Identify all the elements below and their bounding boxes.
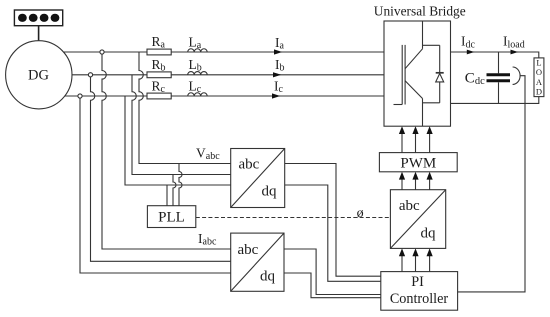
abc/dq converter U2 (current) — [231, 233, 284, 291]
resistor Rb — [147, 57, 171, 78]
current arrow Idc — [461, 34, 476, 55]
wire: phase C tap 2 (to Vabc converter) — [125, 96, 231, 185]
arrows: PI controller to dq/abc converter — [399, 248, 433, 271]
arrows: PWM to bridge gates — [399, 126, 433, 152]
svg-text:Lc: Lc — [189, 78, 202, 95]
svg-text:ø: ø — [357, 206, 364, 221]
wire phase B — [72, 74, 384, 76]
svg-text:Rb: Rb — [152, 57, 166, 74]
abc/dq converter U1 (voltage) — [231, 149, 285, 208]
PI controller block — [381, 272, 458, 311]
wire: PLL tap b — [173, 175, 176, 206]
diode D1 — [423, 45, 444, 103]
dq/abc converter U3 — [390, 190, 445, 249]
svg-text:Ib: Ib — [275, 57, 285, 74]
svg-text:Universal Bridge: Universal Bridge — [374, 4, 466, 19]
svg-text:Iload: Iload — [503, 34, 525, 51]
generator DG — [6, 41, 72, 109]
node C — [78, 94, 82, 98]
svg-text:Idc: Idc — [461, 34, 476, 51]
svg-text:dq: dq — [421, 225, 437, 241]
wire: U1 output d (to PI controller) — [285, 164, 381, 277]
terminal block — [14, 10, 62, 26]
universal bridge block — [384, 21, 451, 126]
svg-text:Rc: Rc — [152, 78, 166, 95]
wire: phase A tap 1 (to Iabc converter) — [102, 54, 231, 249]
wire: dashed phase angle line — [196, 217, 391, 219]
svg-text:Ia: Ia — [275, 35, 285, 52]
wire: U2 output d (to PI controller) — [284, 249, 381, 295]
wire: terminal block stem — [38, 26, 40, 41]
current arrow Ib — [273, 57, 285, 77]
wire: U1 output q (to PI controller) — [285, 185, 381, 281]
wire phase C — [65, 95, 384, 97]
current arrow Ia — [274, 35, 285, 55]
inductor Lc — [188, 78, 208, 96]
svg-text:abc: abc — [239, 156, 260, 172]
wire: PLL tap c — [166, 185, 168, 206]
capacitor Cdc — [465, 52, 510, 103]
svg-text:dq: dq — [262, 183, 278, 199]
inductor Lb — [188, 57, 208, 75]
svg-text:PI: PI — [411, 274, 424, 290]
svg-text:PWM: PWM — [400, 155, 436, 171]
svg-text:PLL: PLL — [158, 210, 185, 226]
svg-text:Vabc: Vabc — [196, 145, 220, 162]
svg-text:abc: abc — [238, 242, 259, 258]
transistor Q1 (IGBT) — [402, 21, 422, 126]
wire: Vdc feedback to PI controller (with hop arc) — [458, 67, 525, 292]
svg-text:L: L — [536, 58, 541, 68]
wire: phase C tap 1 (to Iabc converter) — [80, 98, 231, 273]
svg-text:abc: abc — [399, 198, 420, 214]
svg-text:Lb: Lb — [189, 57, 202, 74]
wire: DC bus positive rail — [451, 52, 539, 58]
wire: phase A tap 2 (to Vabc converter) — [139, 52, 231, 164]
svg-text:D: D — [536, 86, 542, 96]
arrows: U3 to PWM — [399, 172, 433, 190]
svg-text:Controller: Controller — [390, 291, 449, 307]
svg-text:DG: DG — [28, 68, 49, 84]
PLL block — [147, 206, 195, 228]
wire: PLL tap a — [179, 164, 182, 206]
svg-text:A: A — [536, 77, 543, 87]
resistor Ra — [147, 34, 171, 55]
svg-text:Cdc: Cdc — [465, 70, 485, 87]
wire: phase B tap 2 (to Vabc converter) — [132, 75, 231, 175]
current arrow Ic — [272, 79, 284, 99]
PWM block — [379, 153, 457, 172]
load block — [534, 58, 544, 97]
svg-text:Ic: Ic — [274, 79, 284, 96]
wire: U2 output q (to PI controller) — [284, 273, 381, 298]
svg-text:Iabc: Iabc — [198, 231, 217, 248]
svg-text:La: La — [189, 35, 202, 52]
svg-text:dq: dq — [260, 269, 276, 285]
wire phase A — [64, 51, 384, 53]
node A — [100, 50, 104, 54]
wire: DC bus negative rail — [451, 97, 539, 104]
inductor La — [188, 35, 208, 53]
svg-text:Ra: Ra — [152, 34, 166, 51]
wire: gate stub — [394, 104, 403, 106]
svg-text:O: O — [536, 67, 542, 77]
node B — [88, 73, 92, 77]
current arrow Iload — [503, 34, 525, 55]
wire: phase B tap 1 (to Iabc converter) — [91, 77, 231, 261]
resistor Rc — [147, 78, 171, 99]
